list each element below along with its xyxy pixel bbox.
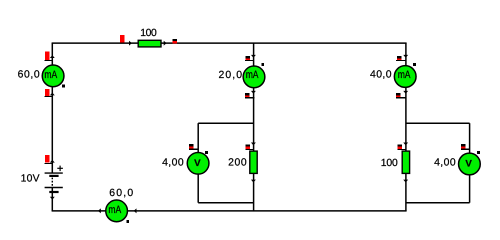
wire middle branch vertical <box>253 43 255 211</box>
current arrow down at battery minus terminal <box>50 197 55 200</box>
current arrow down above resistor R3 <box>403 143 408 146</box>
pin marker black/red at R2 top terminal <box>245 144 254 149</box>
svg-text:60,0: 60,0 <box>109 188 133 199</box>
wire bottom horizontal <box>52 210 407 212</box>
wire voltmeter V1 top connector <box>198 122 253 124</box>
current arrow down below resistor R2 <box>251 180 256 183</box>
pin marker black/red at A3 bottom terminal <box>396 93 406 98</box>
pin marker black/red at A2 top terminal <box>245 56 254 61</box>
svg-text:200: 200 <box>228 158 247 169</box>
svg-text:40,0: 40,0 <box>370 70 392 81</box>
ammeter A3 (right branch) <box>394 66 416 88</box>
svg-text:60,0: 60,0 <box>18 70 40 81</box>
pin marker black/red at A2 bottom terminal <box>245 93 254 98</box>
resistor R1 100 (top wire) <box>138 40 161 47</box>
svg-text:V: V <box>194 157 201 168</box>
wire voltmeter V2 top connector <box>406 122 470 124</box>
svg-text:mA: mA <box>108 204 121 216</box>
pin marker red at A1 top terminal <box>45 52 54 61</box>
voltmeter V2 (across R3) <box>459 153 481 175</box>
battery B1 <box>45 166 63 192</box>
current arrow right after resistor R1 <box>164 41 167 46</box>
svg-text:10V: 10V <box>21 174 40 185</box>
wire voltmeter V2 bottom connector <box>406 202 470 204</box>
pin marker red on top wire before R1 <box>120 35 125 43</box>
svg-text:4,00: 4,00 <box>434 158 456 169</box>
node dot at A1 <box>62 85 65 88</box>
node dot at A3 <box>413 63 416 66</box>
current arrow down at A3 top terminal <box>403 55 408 58</box>
node dot at A2 <box>261 63 264 66</box>
pin marker black/red on top wire after R1 <box>173 39 178 44</box>
pin marker black/red at R3 top terminal <box>397 144 406 149</box>
current arrow up at A1 bottom terminal <box>50 93 55 96</box>
svg-text:20,0: 20,0 <box>219 70 243 81</box>
svg-text:V: V <box>465 158 472 169</box>
ammeter A4 (bottom wire) <box>106 200 128 222</box>
wire right branch vertical <box>405 43 407 211</box>
svg-text:mA: mA <box>246 69 259 81</box>
node dot at A4 <box>126 220 129 223</box>
svg-text:4,00: 4,00 <box>162 158 184 169</box>
svg-text:mA: mA <box>44 69 57 81</box>
current arrow down at A2 top terminal <box>251 55 256 58</box>
pin marker red at battery plus terminal <box>45 155 54 163</box>
svg-text:100: 100 <box>140 28 157 39</box>
current arrow left on bottom wire right of A4 <box>134 208 137 213</box>
pin marker black/red at A3 top terminal <box>396 56 406 61</box>
node dot at V1 <box>205 151 208 154</box>
wire left branch lower (battery to bottom wire) <box>51 188 53 211</box>
svg-text:mA: mA <box>398 69 411 81</box>
wire voltmeter V1 branch vertical <box>197 123 199 203</box>
wire top horizontal <box>52 42 407 44</box>
current arrow down at A3 bottom terminal <box>403 91 408 94</box>
resistor R3 100 (right branch) <box>402 151 409 173</box>
current arrow down below resistor R3 <box>403 180 408 183</box>
svg-text:100: 100 <box>381 158 398 169</box>
ammeter A1 (left branch) <box>42 65 64 87</box>
current arrow left on bottom wire left of A4 <box>98 208 101 213</box>
current arrow down above resistor R2 <box>251 143 256 146</box>
ammeter A2 (middle branch) <box>243 66 265 88</box>
wire voltmeter V2 branch vertical <box>469 123 471 203</box>
voltmeter V1 (across R2) <box>187 152 209 174</box>
current arrow right before resistor R1 <box>129 41 132 46</box>
pin marker black/red at V2 top terminal <box>461 144 470 149</box>
current arrow up at A1 top terminal <box>50 55 55 58</box>
resistor R2 200 (middle branch) <box>250 151 257 173</box>
pin marker red at A1 bottom terminal <box>45 89 54 97</box>
current arrow down at A2 bottom terminal <box>251 91 256 94</box>
wire left branch upper (top corner down to battery) <box>51 43 53 173</box>
current arrow up at battery plus terminal <box>50 160 55 163</box>
wire voltmeter V1 bottom connector <box>198 202 253 204</box>
pin marker black/red at V1 top terminal <box>189 144 198 149</box>
node dot at V2 <box>477 151 480 154</box>
